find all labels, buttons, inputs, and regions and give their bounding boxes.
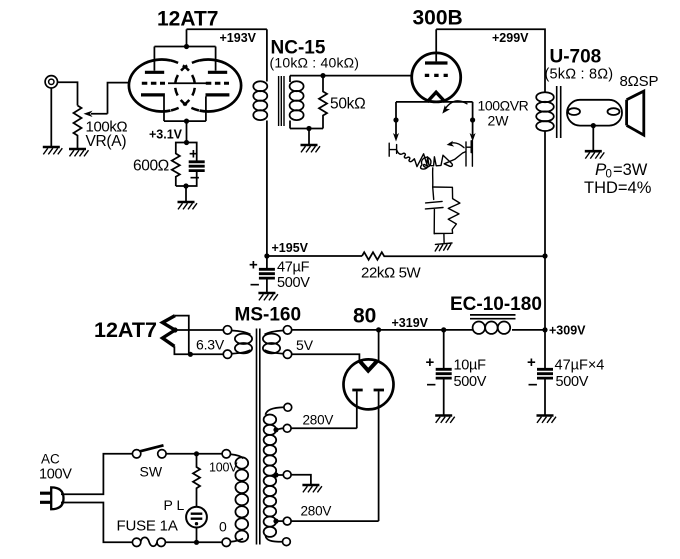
terminal 280V upper bbox=[283, 424, 291, 432]
svg-text:–: – bbox=[250, 274, 259, 293]
wire +319V rail bbox=[292, 327, 444, 332]
svg-text:500V: 500V bbox=[277, 275, 310, 291]
filament 80 bbox=[360, 361, 377, 370]
wire left plate to 280V tap bbox=[291, 427, 356, 429]
svg-text:8ΩSP: 8ΩSP bbox=[620, 73, 659, 90]
fuse FUSE 1A bbox=[132, 537, 165, 546]
wire plug top to SW bbox=[61, 454, 132, 495]
terminal 5V top bbox=[283, 326, 291, 334]
wire secondary top to 300B grid bbox=[290, 73, 412, 78]
svg-text:–: – bbox=[190, 167, 199, 186]
wire filament bus bbox=[396, 101, 473, 103]
svg-text:U-708: U-708 bbox=[550, 47, 602, 68]
svg-text:+193V: +193V bbox=[220, 31, 257, 45]
svg-text:300B: 300B bbox=[413, 7, 463, 30]
svg-text:+3.1V: +3.1V bbox=[149, 128, 183, 142]
svg-text:500V: 500V bbox=[556, 374, 589, 390]
tap 280V upper bbox=[273, 427, 283, 432]
resistor hum (hand drawn) bbox=[433, 187, 460, 234]
wire heater ends tie bbox=[174, 316, 223, 357]
svg-text:0: 0 bbox=[219, 519, 227, 535]
wire +299V rail bbox=[436, 29, 545, 92]
tube V2 300B envelope bbox=[412, 53, 461, 102]
svg-text:100ΩVR: 100ΩVR bbox=[478, 98, 529, 114]
resistor PL dropper bbox=[193, 454, 200, 507]
svg-text:280V: 280V bbox=[301, 504, 332, 519]
svg-text:THD=4%: THD=4% bbox=[584, 179, 652, 197]
hum pot (hand drawn) right terminal bbox=[466, 140, 472, 166]
cathode U1a bbox=[141, 95, 165, 121]
grid U1a bbox=[142, 82, 165, 85]
ground (47uF) bbox=[258, 293, 278, 300]
core T1 bbox=[279, 76, 284, 126]
svg-text:+309V: +309V bbox=[549, 324, 586, 338]
junction +309V node bbox=[542, 327, 547, 332]
svg-text:50kΩ: 50kΩ bbox=[330, 96, 365, 113]
terminal 6.3V top bbox=[223, 326, 231, 334]
svg-text:(5kΩ : 8Ω): (5kΩ : 8Ω) bbox=[545, 67, 614, 83]
plate U1a bbox=[145, 47, 164, 73]
svg-text:P L: P L bbox=[164, 497, 185, 513]
wire jack to pot top bbox=[58, 82, 78, 105]
svg-text:2W: 2W bbox=[488, 113, 510, 129]
ground (under jack) bbox=[43, 147, 63, 154]
wire +195V rail bbox=[264, 253, 362, 258]
svg-text:+: + bbox=[249, 257, 258, 274]
wire filament left leg bbox=[393, 102, 399, 142]
wire U-708 primary down to +309V bbox=[544, 131, 546, 330]
grid tie bbox=[168, 82, 206, 84]
svg-text:10µF: 10µF bbox=[454, 358, 487, 374]
pilot lamp PL bbox=[186, 507, 207, 543]
wire CT to ground bbox=[291, 475, 311, 484]
terminal HV top (open) bbox=[284, 403, 292, 411]
tube V3 80 envelope bbox=[344, 359, 394, 409]
ground (hand drawn) bbox=[435, 243, 452, 251]
svg-text:AC: AC bbox=[41, 452, 60, 467]
core choke bbox=[470, 315, 516, 319]
grid U1b bbox=[206, 82, 229, 85]
svg-text:–: – bbox=[427, 374, 436, 393]
speaker 8 ohm bbox=[627, 91, 644, 135]
terminal 280V lower bbox=[283, 517, 291, 525]
plate 80 right bbox=[374, 390, 384, 521]
svg-text:VR(A): VR(A) bbox=[86, 133, 127, 150]
terminal CT bbox=[283, 471, 291, 479]
svg-text:+: + bbox=[527, 354, 536, 371]
wire plates junction bbox=[154, 29, 215, 49]
svg-text:500V: 500V bbox=[454, 374, 487, 390]
svg-text:12AT7: 12AT7 bbox=[94, 318, 157, 342]
svg-text:+299V: +299V bbox=[492, 31, 529, 45]
resistor 600 ohm cathode bbox=[172, 143, 187, 187]
potentiometer VR 100k bbox=[74, 106, 82, 149]
svg-text:6.3V: 6.3V bbox=[196, 337, 225, 353]
svg-text:280V: 280V bbox=[303, 413, 334, 428]
ground (CT) bbox=[302, 485, 322, 492]
wire heater center tap bbox=[172, 327, 223, 332]
wire filament right leg bbox=[470, 102, 476, 142]
svg-text:100V: 100V bbox=[39, 467, 72, 483]
svg-text:(10kΩ : 40kΩ): (10kΩ : 40kΩ) bbox=[270, 55, 360, 71]
svg-text:EC-10-180: EC-10-180 bbox=[450, 294, 542, 315]
core T3 MS-160 bbox=[257, 329, 260, 545]
filament 300B bbox=[427, 92, 445, 102]
junction 10uF node bbox=[441, 327, 446, 332]
ground (47uF x4) bbox=[537, 416, 557, 423]
svg-text:12AT7: 12AT7 bbox=[157, 8, 218, 31]
hum pot (hand drawn) left terminal bbox=[389, 143, 396, 156]
wire hum pot tap (hand drawn) bbox=[432, 168, 434, 187]
wire 5V to filament left bbox=[292, 354, 360, 361]
ground (speaker return) bbox=[585, 151, 605, 158]
capacitor 47uF decoupling bbox=[259, 256, 275, 292]
heater 12AT7 bbox=[163, 316, 176, 347]
pot wiper arrow bbox=[84, 111, 108, 117]
svg-text:22kΩ 5W: 22kΩ 5W bbox=[361, 265, 422, 282]
tap 280V lower bbox=[273, 519, 283, 524]
hum pot (hand drawn) body bbox=[397, 150, 466, 169]
plate 300B bbox=[425, 29, 448, 63]
svg-text:+: + bbox=[189, 146, 198, 163]
wire jack to ground bbox=[50, 88, 52, 146]
capacitor hum (hand drawn) bbox=[425, 187, 443, 234]
choke EC-10-180 bbox=[444, 322, 545, 334]
svg-text:+319V: +319V bbox=[392, 316, 429, 330]
wire B+ into NC-15 primary bbox=[266, 29, 268, 81]
capacitor 10uF bbox=[436, 330, 452, 415]
terminal 0 bbox=[222, 538, 230, 546]
grid 300B bbox=[425, 74, 448, 77]
triode U1b envelope bbox=[200, 60, 242, 112]
ground (10uF) bbox=[435, 416, 455, 423]
transformer T1 NC-15 secondary bbox=[290, 76, 304, 129]
svg-text:+: + bbox=[426, 354, 435, 371]
wire wiper to grid bbox=[108, 83, 129, 114]
wire cathode network to ground bbox=[183, 183, 188, 201]
wire secondary bottom bbox=[290, 126, 323, 144]
wire to hand ground bbox=[443, 234, 445, 243]
svg-text:MS-160: MS-160 bbox=[235, 305, 302, 326]
wire +193V rail bbox=[187, 28, 267, 30]
winding 5V bbox=[263, 331, 283, 354]
transformer T1 NC-15 primary bbox=[253, 81, 267, 120]
wire NC-15 primary to +195V rail bbox=[266, 121, 268, 257]
svg-text:FUSE 1A: FUSE 1A bbox=[117, 518, 178, 535]
terminal 5V bottom bbox=[283, 350, 291, 358]
terminal 6.3V bottom bbox=[223, 350, 231, 358]
wire fuse to 0 terminal bbox=[165, 540, 222, 545]
ground (under pot) bbox=[69, 149, 89, 156]
resistor 50k grid leak bbox=[319, 76, 327, 129]
wire plug bottom to fuse bbox=[61, 503, 132, 543]
plate 80 left bbox=[352, 390, 362, 428]
capacitor 47uF x4 bbox=[537, 330, 553, 415]
terminal HV bottom (open) bbox=[283, 538, 291, 546]
resistor 22k 5W bbox=[362, 252, 545, 260]
annotation arrow to hum pot bbox=[442, 101, 467, 114]
winding 6.3V bbox=[232, 331, 252, 354]
svg-text:80: 80 bbox=[353, 305, 376, 328]
wire cathodes junction bbox=[164, 119, 206, 146]
cathode U1b bbox=[206, 95, 230, 121]
svg-text:47µF×4: 47µF×4 bbox=[555, 358, 605, 374]
winding 100V primary bbox=[231, 454, 249, 542]
capacitor cathode bypass bbox=[176, 143, 205, 187]
ground (NC-15 secondary) bbox=[301, 145, 321, 152]
svg-text:SW: SW bbox=[140, 464, 163, 480]
winding HV secondary bbox=[264, 407, 284, 542]
AC plug bbox=[40, 487, 64, 509]
svg-text:=3W: =3W bbox=[613, 161, 648, 179]
wire rail to filament right bbox=[378, 330, 380, 363]
secondary U-708 (loop view) bbox=[567, 100, 622, 126]
triode U1a envelope bbox=[129, 60, 171, 112]
input jack J1 bbox=[45, 76, 57, 88]
switch SW bbox=[132, 445, 166, 458]
wire right plate to 280V tap bbox=[291, 520, 378, 522]
svg-text:+195V: +195V bbox=[272, 241, 309, 255]
core T2 bbox=[557, 86, 561, 138]
svg-text:–: – bbox=[528, 374, 537, 393]
annotation small arrow (hum pot wiper) bbox=[447, 141, 464, 148]
wire secondary to ground bbox=[591, 123, 596, 150]
wire SW to 100V terminal bbox=[166, 451, 222, 456]
svg-text:47µF: 47µF bbox=[277, 260, 310, 276]
svg-text:100V: 100V bbox=[209, 461, 238, 475]
transformer T2 U-708 primary bbox=[536, 92, 554, 131]
ground (cathode) bbox=[178, 202, 198, 209]
svg-text:5V: 5V bbox=[296, 337, 314, 353]
plate U1b bbox=[208, 47, 227, 73]
junction +195V rail / B+ bbox=[542, 253, 547, 258]
terminal 100V bbox=[222, 450, 230, 458]
svg-text:600Ω: 600Ω bbox=[133, 158, 169, 175]
tap center bbox=[273, 472, 283, 477]
